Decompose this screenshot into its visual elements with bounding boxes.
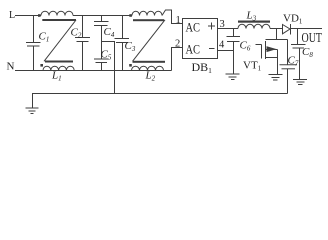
svg-text:L3: L3 — [246, 10, 257, 23]
wire bottom rail to bridge pin 2 — [172, 48, 183, 71]
svg-text:C7: C7 — [288, 55, 299, 68]
svg-text:AC: AC — [186, 42, 201, 57]
svg-text:AC: AC — [186, 20, 201, 35]
wire bridge pin 4 to ground node — [218, 50, 234, 52]
wire Y-cap midpoint to earth — [102, 42, 115, 94]
svg-text:C6: C6 — [240, 40, 251, 53]
minus sign — [209, 48, 215, 50]
node L input label — [9, 10, 15, 21]
svg-text:C8: C8 — [302, 46, 313, 59]
pin 4 label — [219, 40, 225, 51]
capacitor C8 output cap — [291, 29, 313, 80]
wire top rail between chokes — [73, 15, 132, 17]
svg-text:2: 2 — [175, 39, 180, 50]
svg-text:C1: C1 — [39, 31, 50, 44]
bridge rectifier DB1 box — [183, 19, 218, 59]
ground under C8 — [293, 80, 307, 85]
svg-text:DB1: DB1 — [192, 60, 213, 75]
wire bridge pin 3 to L3 — [218, 28, 239, 30]
ground main earth symbol — [26, 108, 39, 114]
capacitor C6 bulk cap — [227, 29, 251, 75]
node OUT label — [302, 30, 323, 45]
wire L3 to diode — [270, 28, 283, 30]
wire earth bottom rail — [33, 94, 288, 109]
inductor L2 common-mode choke — [129, 11, 165, 82]
svg-text:C3: C3 — [125, 40, 136, 53]
pin 2 label — [175, 39, 180, 50]
wire choke L2 to bridge pin 1 — [162, 10, 183, 24]
pin 1 label — [176, 15, 181, 26]
inductor L1 common-mode choke — [38, 11, 76, 82]
ground under VT1 — [269, 75, 283, 81]
wire N input bottom rail — [15, 70, 172, 72]
capacitor C3 — [115, 16, 136, 71]
node N input label — [7, 61, 15, 73]
plus sign — [208, 23, 215, 30]
transistor VT1 MOSFET — [243, 29, 288, 75]
svg-text:C2: C2 — [71, 27, 82, 40]
svg-text:OUT: OUT — [302, 30, 323, 45]
capacitor C1 — [26, 16, 49, 71]
inductor L3 — [238, 10, 270, 29]
svg-text:C5: C5 — [101, 49, 112, 62]
svg-text:L: L — [9, 10, 15, 21]
pin 3 label — [220, 19, 225, 30]
ground under C6 — [226, 74, 240, 80]
svg-text:L1: L1 — [51, 70, 62, 83]
svg-text:1: 1 — [176, 15, 181, 26]
svg-text:VD1: VD1 — [283, 13, 303, 26]
diode VD1 — [283, 13, 303, 35]
capacitor C7 snubber — [280, 40, 299, 94]
wire output rail — [291, 28, 323, 30]
svg-text:4: 4 — [219, 40, 225, 51]
capacitor C2 — [71, 16, 91, 71]
capacitor C5 lower Y-cap — [94, 49, 112, 71]
wire L input top rail — [15, 15, 41, 17]
svg-text:N: N — [7, 61, 15, 73]
svg-text:VT1: VT1 — [243, 60, 262, 73]
svg-text:L2: L2 — [145, 70, 156, 83]
capacitor C4 upper Y-cap — [94, 16, 115, 60]
svg-text:C4: C4 — [104, 26, 115, 39]
